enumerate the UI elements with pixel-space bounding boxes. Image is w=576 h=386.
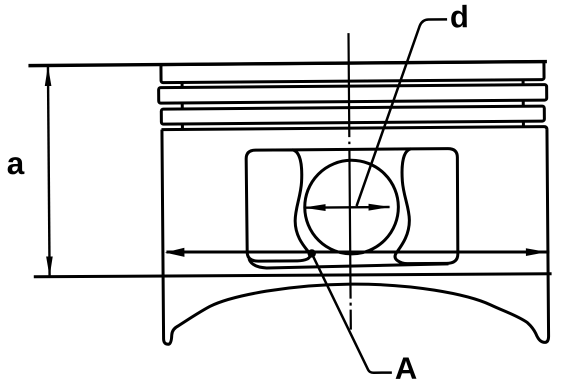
svg-text:A: A <box>395 351 418 386</box>
svg-text:d: d <box>450 0 469 34</box>
svg-text:a: a <box>7 145 25 181</box>
